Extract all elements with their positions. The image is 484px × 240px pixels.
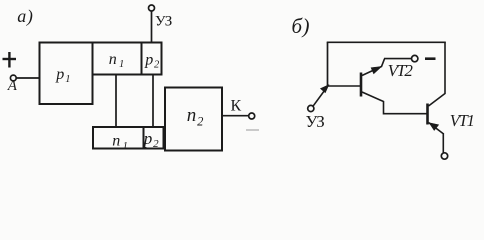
block n1 bottom — [93, 127, 144, 149]
wire UZ down to p2 — [151, 11, 153, 43]
wire emitter VT2 to minus terminal — [384, 58, 412, 60]
wire left vertical — [327, 42, 329, 86]
wire A to p1 — [16, 77, 40, 79]
wire p2 to lower row — [152, 75, 154, 128]
wire n2 to K — [222, 115, 249, 117]
svg-text:УЗ: УЗ — [306, 112, 325, 131]
block n2 — [165, 88, 222, 151]
wire emitter VT1 down — [442, 133, 444, 153]
transistor VT2 collector — [362, 92, 427, 114]
block p2 bottom — [144, 127, 164, 149]
terminal A circle — [10, 75, 16, 81]
wire base VT2 — [328, 85, 361, 87]
terminal VT1 emitter circle — [441, 153, 447, 159]
transistor VT1 collector — [429, 42, 446, 106]
faint smudge dash — [246, 129, 259, 131]
svg-text:УЗ: УЗ — [155, 13, 172, 29]
transistor VT2 base bar — [360, 73, 363, 97]
terminal UZ circle — [149, 5, 155, 11]
block p2 top — [142, 43, 162, 75]
svg-text:VT1: VT1 — [450, 111, 474, 130]
wire n1 to lower row — [115, 75, 117, 128]
transistor VT1 base bar — [426, 104, 429, 125]
terminal minus circle — [412, 55, 418, 61]
terminal K circle — [249, 113, 255, 119]
plus polarity sign — [3, 52, 17, 68]
wire top rail — [327, 41, 446, 43]
svg-text:б): б) — [292, 14, 310, 38]
transistor VT2 emitter with arrow — [362, 59, 385, 76]
terminal UZ input circle — [308, 105, 314, 111]
svg-text:А: А — [7, 78, 18, 94]
minus sign — [425, 57, 436, 60]
svg-text:VT2: VT2 — [388, 61, 414, 80]
block n1 top — [93, 43, 142, 75]
transistor VT1 emitter with arrow — [429, 123, 444, 134]
block p1 — [40, 43, 93, 105]
svg-text:а): а) — [17, 6, 33, 27]
wire UZ input arrow — [313, 85, 329, 106]
svg-text:К: К — [231, 97, 242, 114]
